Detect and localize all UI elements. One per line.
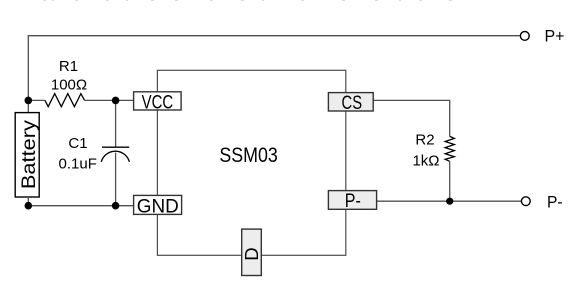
svg-text:100Ω: 100Ω [51, 77, 87, 94]
pin box P- [328, 190, 376, 212]
terminal P- circle [521, 197, 530, 206]
svg-text:P-: P- [345, 190, 361, 212]
wire CS to R2 [373, 100, 450, 136]
junction node R2 bottom [446, 198, 453, 205]
svg-text:R2: R2 [415, 132, 434, 149]
terminal P+ circle [520, 32, 529, 41]
wire R1 to VCC [85, 99, 134, 101]
wire R2 bottom lead [449, 161, 451, 201]
junction node battery bottom [25, 202, 33, 210]
capacitor C1 top plate [102, 146, 129, 148]
wire battery bottom lead [27, 197, 29, 206]
svg-text:D: D [241, 247, 262, 260]
resistor R2 zigzag [445, 136, 454, 161]
svg-text:VCC: VCC [142, 91, 174, 113]
battery BT1 body [15, 113, 39, 197]
pin box VCC [134, 91, 182, 113]
wire P+ rail top [28, 36, 520, 101]
wire C1 bottom lead [115, 153, 117, 206]
junction node R1/battery [25, 97, 33, 105]
wire battery top lead [27, 100, 29, 112]
junction node C1 top [112, 97, 120, 105]
top cropped text specks [43, 0, 452, 1]
svg-text:CS: CS [342, 92, 363, 114]
wire C1 top lead [115, 100, 117, 147]
pin box GND [134, 195, 182, 217]
svg-text:0.1uF: 0.1uF [59, 156, 97, 173]
wire GND row [28, 205, 133, 207]
resistor R1 zigzag [45, 94, 85, 107]
junction node C1 bottom [112, 202, 120, 210]
svg-text:P+: P+ [545, 27, 565, 46]
pin box CS [328, 92, 373, 114]
capacitor C1 curved plate [101, 151, 129, 162]
wire P- row [377, 200, 522, 202]
op-amp U1 SSM03 IC body [157, 70, 345, 255]
svg-text:P-: P- [547, 192, 563, 211]
pin box D [241, 229, 262, 275]
svg-text:GND: GND [137, 196, 179, 218]
svg-text:SSM03: SSM03 [219, 144, 278, 167]
svg-text:C1: C1 [68, 135, 87, 152]
svg-text:R1: R1 [59, 58, 78, 75]
svg-text:1kΩ: 1kΩ [412, 152, 439, 169]
svg-text:Battery: Battery [18, 120, 40, 189]
wire R1 row left [28, 99, 45, 101]
